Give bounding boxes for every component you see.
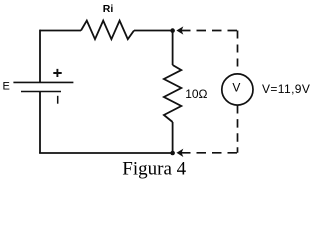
dashed probe lead bottom horizontal (corner to node B)	[181, 152, 238, 154]
dashed probe lead top vertical (corner to voltmeter)	[237, 31, 239, 67]
svg-text:V: V	[232, 80, 240, 94]
wire left vertical lower (battery to bottom corner)	[39, 92, 41, 154]
resistor Ri	[81, 21, 134, 40]
battery E negative plate	[21, 91, 61, 93]
wire right vertical lower (resistor to node B)	[172, 122, 174, 153]
battery E positive plate	[13, 81, 73, 83]
wire bottom from corner to node B	[39, 152, 173, 154]
dashed probe lead top horizontal (node A to corner)	[181, 30, 238, 32]
svg-text:10Ω: 10Ω	[185, 87, 207, 101]
plus polarity mark	[53, 69, 61, 77]
resistor 10 ohm	[164, 65, 181, 122]
arrowhead at node A	[177, 27, 182, 33]
wire left vertical upper (corner to battery)	[39, 30, 41, 83]
minus polarity mark	[57, 96, 59, 104]
svg-text:V=11,9V: V=11,9V	[262, 82, 310, 96]
svg-text:Ri: Ri	[103, 3, 114, 15]
arrowhead at node B	[177, 150, 182, 156]
svg-text:E: E	[3, 81, 10, 93]
svg-text:Figura 4: Figura 4	[122, 158, 186, 179]
wire top from left corner to resistor Ri	[40, 30, 81, 32]
wire top from Ri to node A	[134, 30, 173, 32]
node B (bottom junction dot)	[170, 151, 175, 156]
wire right vertical upper (node A to resistor)	[172, 31, 174, 66]
voltmeter V (meter circle)	[222, 74, 253, 105]
node A (top junction dot)	[170, 28, 175, 33]
dashed probe lead bottom vertical (voltmeter to corner)	[237, 105, 239, 153]
